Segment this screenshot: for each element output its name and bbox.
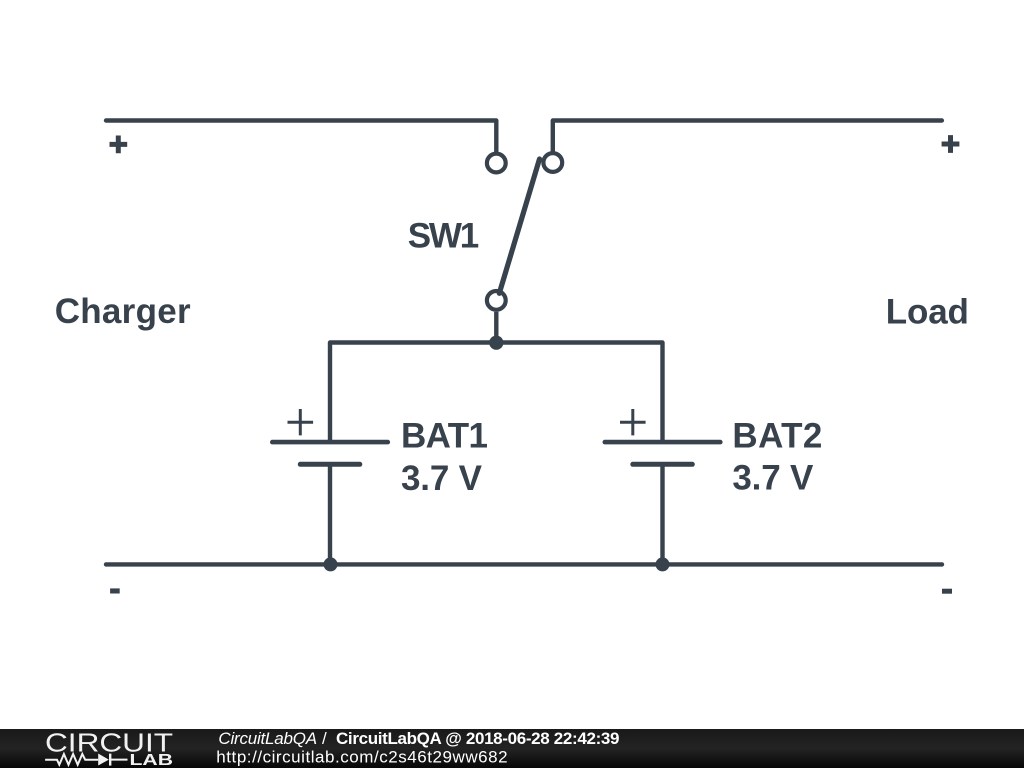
svg-text:3.7 V: 3.7 V <box>732 459 814 498</box>
wire: BAT2 negative to bottom rail <box>660 464 664 564</box>
label: load minus <box>942 589 952 594</box>
svg-text:3.7 V: 3.7 V <box>401 459 483 498</box>
wire: middle rail to battery tops <box>330 343 663 442</box>
battery BAT2 positive plate <box>605 440 721 445</box>
CircuitLab logo resistor-diode art <box>45 754 127 766</box>
label: load plus <box>942 135 960 153</box>
node: battery bank top junction <box>489 336 503 350</box>
switch SW1 lever <box>499 159 539 293</box>
svg-text:SW1: SW1 <box>408 216 480 255</box>
switch SW1 throw terminal 1 <box>487 154 506 173</box>
label: charger plus <box>110 136 128 154</box>
node: BAT2 negative junction <box>656 557 670 571</box>
svg-text:Charger: Charger <box>55 292 191 331</box>
svg-text:http://circuitlab.com/c2s46t29: http://circuitlab.com/c2s46t29ww682 <box>216 748 507 767</box>
svg-text:CircuitLabQA: CircuitLabQA <box>218 729 317 748</box>
node: BAT1 negative junction <box>324 557 338 571</box>
wire: load positive rail <box>553 121 942 152</box>
battery BAT1 positive plate <box>272 440 388 445</box>
svg-text:LAB: LAB <box>130 752 174 768</box>
svg-text:/: / <box>322 729 327 748</box>
label: charger minus <box>110 588 120 593</box>
svg-text:CircuitLabQA @ 2018-06-28 22:4: CircuitLabQA @ 2018-06-28 22:42:39 <box>336 729 620 748</box>
switch SW1 common terminal <box>487 291 506 310</box>
battery BAT2 plus marking <box>620 409 646 435</box>
footer bar <box>0 729 1024 768</box>
wire: BAT1 negative to bottom rail <box>328 464 332 564</box>
battery BAT1 negative plate <box>300 462 360 467</box>
wire: switch common to node <box>494 312 498 343</box>
svg-text:BAT2: BAT2 <box>732 417 822 456</box>
battery BAT1 plus marking <box>288 409 314 435</box>
wire: bottom negative rail <box>106 562 942 566</box>
switch SW1 throw terminal 2 <box>543 153 562 172</box>
svg-text:Load: Load <box>886 292 969 331</box>
wire: charger positive rail <box>106 121 496 152</box>
battery BAT2 negative plate <box>633 462 693 467</box>
svg-text:BAT1: BAT1 <box>401 417 488 456</box>
